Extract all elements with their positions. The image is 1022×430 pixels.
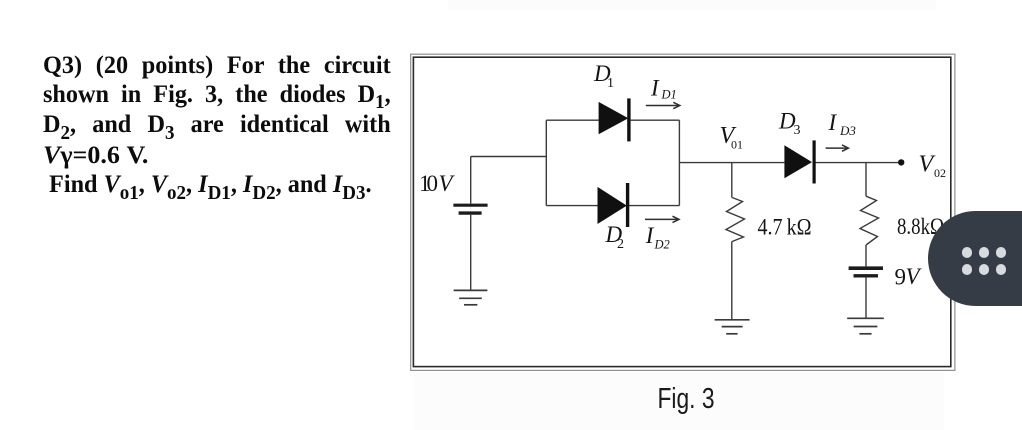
floating apps button [928, 211, 1022, 306]
battery V1 10V long plate [453, 204, 487, 207]
figure frame outer [411, 54, 955, 370]
battery V1 10V short plate [459, 211, 482, 214]
svg-text:02: 02 [934, 166, 946, 180]
wire bottom branch left of D2 [546, 205, 597, 207]
svg-text:01: 01 [731, 138, 743, 152]
wire R2 top lead [865, 163, 867, 197]
faint scan strip top [448, 0, 936, 10]
wire R1 top lead [731, 163, 733, 198]
wire left junction vertical [545, 120, 547, 205]
ground for R1 [715, 320, 750, 334]
wire battery V2 to ground [865, 278, 867, 318]
wire R1 bottom lead [731, 242, 733, 320]
svg-text:9: 9 [895, 264, 907, 289]
svg-text:D2: D2 [654, 238, 670, 252]
battery V2 9V long plate [849, 266, 883, 270]
wire D3 to node V02 [815, 162, 901, 164]
svg-text:Fig. 3: Fig. 3 [658, 383, 715, 415]
diode D2 [598, 183, 628, 227]
wire top branch left of D1 [546, 119, 598, 121]
diode D3 [784, 140, 814, 183]
svg-text:10: 10 [419, 171, 438, 196]
wire battery V1 top lead [470, 157, 472, 204]
arrow current ID3 [826, 145, 849, 151]
svg-text:4.7 kΩ: 4.7 kΩ [758, 215, 812, 240]
faint scan strip bottom [414, 373, 944, 430]
wire R2 to battery V2 [865, 245, 867, 266]
arrow current ID1 [646, 102, 680, 108]
wire battery V1 bottom lead [470, 215, 472, 290]
svg-text:3: 3 [794, 123, 801, 138]
battery V2 9V short plate [854, 274, 879, 277]
wire output to D3 [679, 162, 784, 164]
svg-text:D1: D1 [661, 88, 677, 102]
wire top branch right of D1 [631, 119, 680, 121]
svg-text:2: 2 [617, 237, 624, 252]
diode D1 [599, 98, 629, 141]
ground for battery V1 [454, 290, 488, 304]
wire right junction vertical [678, 120, 680, 205]
svg-text:I: I [650, 76, 660, 101]
resistor R1 4.7k zigzag [726, 197, 745, 241]
svg-text:1: 1 [607, 76, 614, 91]
question text [43, 51, 391, 201]
arrow current ID2 [645, 216, 679, 222]
ground for battery V2 [847, 318, 884, 334]
node V02 dot [898, 159, 904, 165]
wire bottom branch right of D2 [629, 205, 679, 207]
svg-text:I: I [828, 110, 838, 135]
figure frame inner [413, 57, 950, 366]
svg-text:D3: D3 [839, 123, 856, 138]
svg-text:V: V [919, 152, 936, 178]
resistor R2 8.8k zigzag [860, 196, 879, 245]
svg-text:V: V [439, 171, 456, 196]
svg-text:I: I [645, 223, 655, 248]
svg-text:V: V [906, 264, 923, 289]
wire battery top to left junction [471, 156, 547, 158]
